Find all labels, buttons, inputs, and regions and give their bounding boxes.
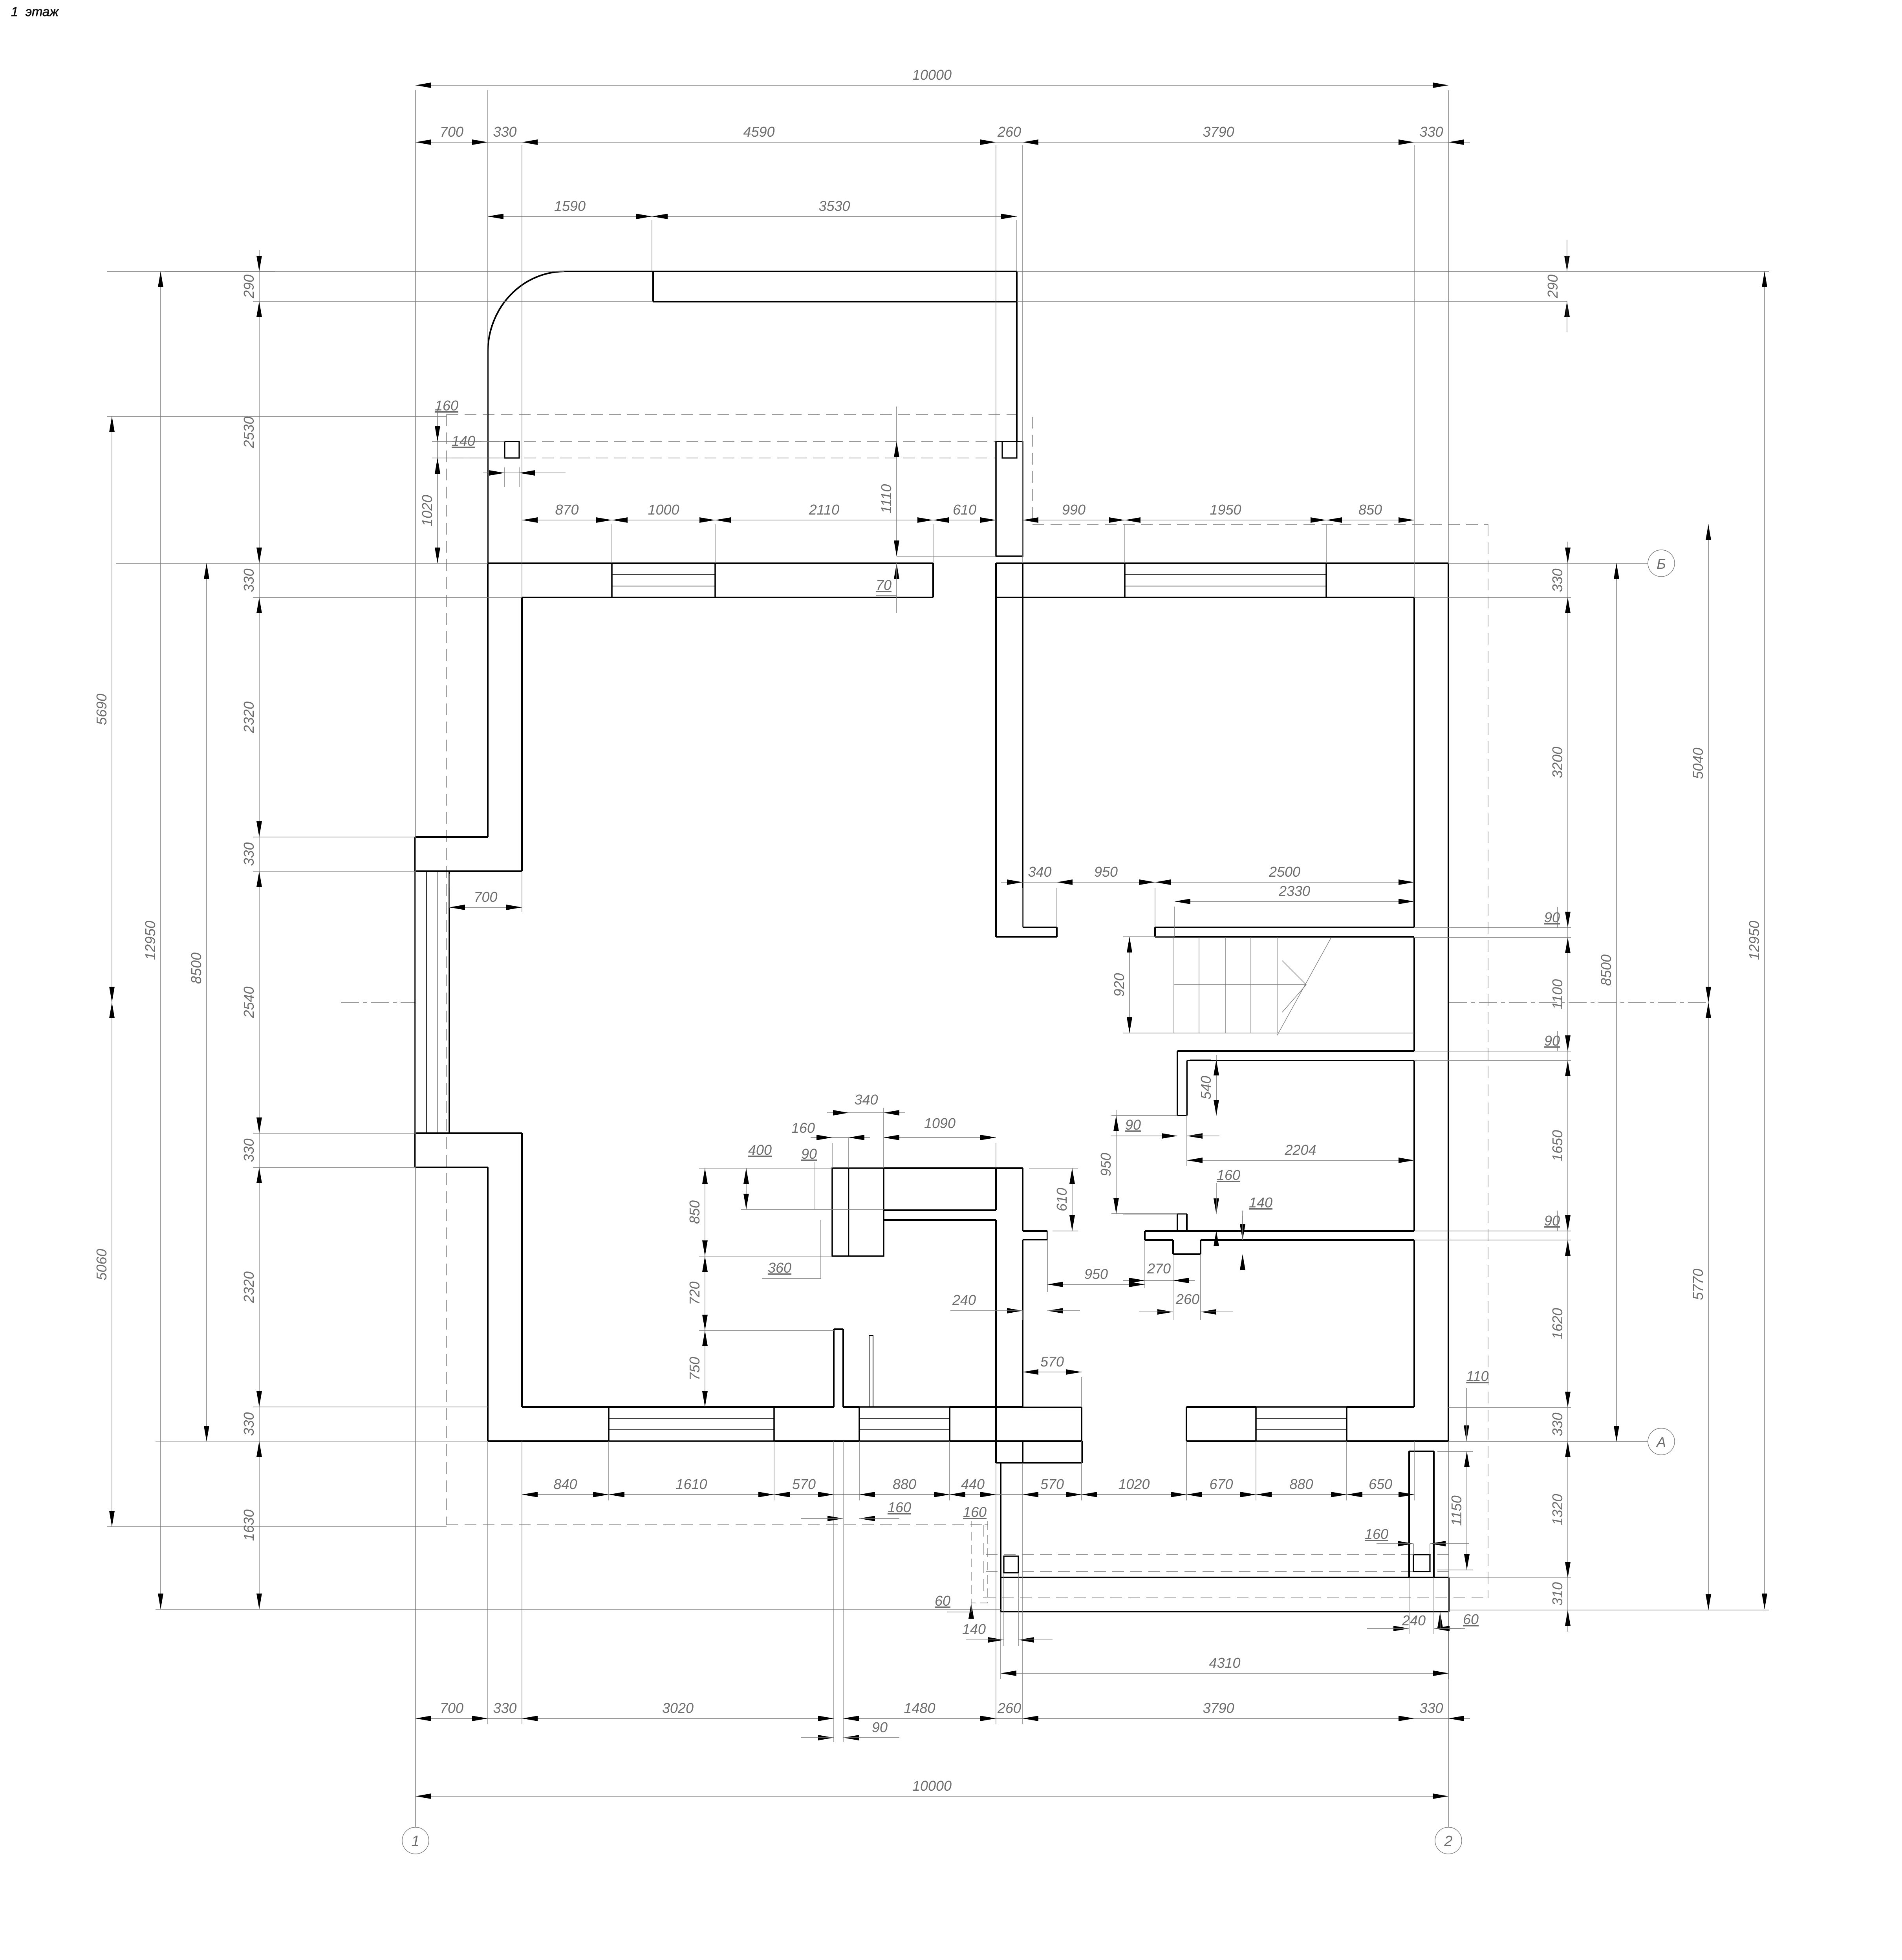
svg-text:4590: 4590: [743, 124, 774, 140]
dim 70: [894, 563, 899, 579]
canopy dashed outline top-left: [447, 414, 1018, 415]
svg-text:340: 340: [1028, 864, 1051, 880]
svg-text:1090: 1090: [924, 1115, 956, 1131]
svg-text:880: 880: [1289, 1476, 1313, 1492]
kitchen north wall band: [884, 1167, 1023, 1169]
svg-text:240: 240: [952, 1292, 976, 1308]
left col 290..1630: [259, 250, 260, 1609]
svg-text:1110: 1110: [878, 484, 894, 514]
axis circle B: [1648, 550, 1675, 577]
svg-text:700: 700: [440, 1700, 463, 1716]
dim 1110 vertical: [896, 441, 897, 556]
extension lines verticals top: [487, 90, 488, 563]
right col 5040/5770: [1708, 524, 1709, 1610]
canopy dashed west edge: [446, 414, 447, 1525]
dim row 10000 bottom: [416, 1796, 1448, 1797]
entrance door jamb: [932, 563, 934, 597]
window W2 in top wall: [1125, 562, 1326, 564]
hallway partition upper piece with door jamb: [1177, 1051, 1178, 1116]
bottom wall segment 2: [950, 1406, 1023, 1408]
porch curved corner wall (arc): [488, 271, 564, 352]
svg-text:2: 2: [1444, 1833, 1452, 1850]
svg-text:8500: 8500: [188, 953, 204, 984]
terrace east pier: [1408, 1451, 1410, 1577]
east exterior wall inner face: [1413, 597, 1415, 927]
chimney divider: [848, 1168, 849, 1256]
dim 950 opening: [1047, 1284, 1145, 1285]
central wall lower west face: [995, 1220, 997, 1407]
pilaster bump on central wall: [1023, 1230, 1047, 1232]
top exterior wall inner face: [522, 597, 933, 598]
central wall lower east face: [1022, 1168, 1023, 1231]
dim 140 post: [483, 473, 566, 473]
svg-text:650: 650: [1369, 1476, 1392, 1492]
terrace SE post: [1413, 1555, 1430, 1572]
dim 1020 vertical: [437, 458, 438, 563]
svg-text:140: 140: [452, 433, 475, 449]
svg-text:8500: 8500: [1598, 954, 1614, 986]
bay window (west glazing): [414, 871, 416, 1133]
svg-text:290: 290: [241, 275, 257, 299]
svg-text:70: 70: [876, 577, 892, 593]
svg-text:950: 950: [1084, 1266, 1108, 1282]
svg-text:12950: 12950: [1746, 921, 1762, 960]
svg-text:90: 90: [1125, 1117, 1141, 1133]
kitchen partition at bottom wall: [833, 1329, 835, 1407]
terrace west edge: [1000, 1463, 1001, 1612]
svg-text:160: 160: [791, 1120, 815, 1136]
svg-text:2204: 2204: [1284, 1142, 1316, 1158]
svg-text:А: А: [1656, 1434, 1666, 1450]
svg-text:3530: 3530: [818, 198, 850, 214]
door leaf: [869, 1335, 873, 1407]
extension lines horizontals right: [1017, 271, 1769, 272]
staircase: [1173, 937, 1174, 1033]
dim 700 bay: [449, 907, 522, 908]
top exterior wall outer face: [488, 562, 933, 564]
porch post right: [1002, 441, 1017, 458]
svg-text:1000: 1000: [648, 502, 679, 518]
svg-text:90: 90: [801, 1146, 817, 1162]
dim row 700/330/4590/260/3790/330: [416, 142, 1470, 143]
dim row 1590/3530: [488, 216, 1017, 217]
bottom wall piece east of patio pier: [1023, 1407, 1082, 1408]
svg-text:60: 60: [935, 1593, 950, 1609]
svg-text:570: 570: [1040, 1354, 1064, 1370]
svg-text:750: 750: [686, 1357, 703, 1380]
window W3 in bottom wall: [609, 1406, 774, 1408]
svg-text:1630: 1630: [241, 1509, 257, 1541]
svg-text:2530: 2530: [241, 416, 257, 448]
svg-text:10000: 10000: [912, 1778, 952, 1794]
svg-text:3790: 3790: [1203, 124, 1234, 140]
svg-text:60: 60: [1463, 1611, 1479, 1627]
svg-text:160: 160: [435, 397, 458, 414]
dashed column outline at porch door: [971, 1525, 988, 1603]
bay window top jog wall: [415, 836, 488, 838]
svg-text:570: 570: [1040, 1476, 1064, 1492]
dim 140 SW post: [988, 1637, 1004, 1643]
svg-text:160: 160: [888, 1499, 911, 1515]
svg-text:880: 880: [893, 1476, 916, 1492]
svg-text:140: 140: [1249, 1194, 1272, 1211]
kitchen south wall line: [884, 1219, 996, 1221]
svg-text:110: 110: [1466, 1368, 1488, 1384]
svg-text:12950: 12950: [142, 921, 158, 960]
svg-text:1320: 1320: [1549, 1494, 1565, 1525]
canopy dashed jog vertical: [1032, 417, 1033, 524]
porch north wall outer face: [564, 271, 1017, 272]
extension lines verticals bottom: [487, 1441, 488, 1724]
terrace SW post: [1004, 1556, 1018, 1573]
canopy dashed bottom-right: [984, 1597, 1488, 1598]
misc small extension lines: [897, 556, 996, 557]
svg-text:400: 400: [748, 1142, 772, 1158]
porch post left: [505, 441, 519, 458]
svg-text:950: 950: [1098, 1153, 1114, 1176]
right col 330..310: [1567, 542, 1568, 1632]
west exterior wall inner face (upper): [521, 597, 523, 871]
svg-text:670: 670: [1209, 1476, 1233, 1492]
svg-text:540: 540: [1198, 1076, 1214, 1099]
svg-text:140: 140: [962, 1621, 986, 1637]
svg-text:330: 330: [493, 1700, 516, 1716]
dim 400: [746, 1168, 747, 1209]
bay window bottom jog wall: [415, 1132, 522, 1134]
svg-text:1: 1: [411, 1833, 419, 1850]
axis 1 extension line: [415, 90, 416, 1827]
right col 8500: [1616, 563, 1617, 1442]
svg-text:330: 330: [493, 124, 516, 140]
canopy dashed bottom-left: [447, 1524, 984, 1525]
dim 290 right: [1564, 256, 1570, 271]
west exterior wall outer face (upper): [487, 352, 489, 837]
svg-text:870: 870: [555, 502, 578, 518]
svg-text:5040: 5040: [1690, 747, 1706, 779]
svg-text:160: 160: [963, 1504, 987, 1520]
svg-text:1150: 1150: [1448, 1495, 1464, 1526]
svg-text:3790: 3790: [1203, 1700, 1234, 1716]
central wall upper east face: [1022, 563, 1023, 927]
svg-text:1100: 1100: [1549, 979, 1565, 1009]
axis 2 extension line: [1448, 90, 1449, 563]
dim 2330: [1175, 901, 1414, 902]
section dash-dot line: [341, 1002, 416, 1003]
A-axis line: [1620, 1441, 1648, 1442]
svg-text:1610: 1610: [675, 1476, 707, 1492]
cross partition lower stub: [1172, 1240, 1174, 1254]
dim row 10000 top: [416, 85, 1448, 86]
central wall upper west face: [995, 563, 997, 937]
svg-text:840: 840: [553, 1476, 577, 1492]
svg-text:330: 330: [241, 842, 257, 866]
svg-text:10000: 10000: [912, 67, 952, 83]
hall partition stub top: [1023, 927, 1057, 928]
canopy wall piece above entrance: [996, 441, 1023, 556]
svg-text:700: 700: [474, 889, 497, 905]
svg-text:260: 260: [997, 1700, 1021, 1716]
svg-text:920: 920: [1111, 973, 1127, 996]
svg-text:240: 240: [1402, 1612, 1426, 1628]
svg-text:570: 570: [792, 1476, 816, 1492]
dim 950/540 door: [1116, 1116, 1117, 1214]
dim row 340/950/2500: [1001, 882, 1414, 883]
svg-text:260: 260: [997, 124, 1021, 140]
svg-text:260: 260: [1175, 1291, 1199, 1307]
terrace south wall band: [1001, 1577, 1449, 1578]
svg-text:330: 330: [1549, 568, 1565, 592]
window W1 in top wall: [612, 562, 715, 564]
svg-text:1020: 1020: [1118, 1476, 1150, 1492]
svg-text:3020: 3020: [662, 1700, 694, 1716]
svg-text:4310: 4310: [1209, 1655, 1240, 1671]
svg-text:1950: 1950: [1210, 502, 1241, 518]
west exterior wall outer face (lower): [487, 1167, 489, 1441]
svg-text:3200: 3200: [1549, 747, 1565, 778]
svg-text:2320: 2320: [241, 1271, 257, 1303]
svg-text:850: 850: [686, 1200, 703, 1224]
svg-text:610: 610: [1054, 1188, 1070, 1211]
dim 570 pier piece: [1023, 1372, 1082, 1372]
corridor partition below stairs: [1177, 1050, 1414, 1052]
svg-text:700: 700: [440, 124, 463, 140]
cross partition (WC) north face: [1145, 1230, 1414, 1232]
dim 160/340/1090 chimney: [884, 1137, 996, 1138]
right col 12950: [1764, 271, 1765, 1609]
svg-text:270: 270: [1147, 1260, 1171, 1277]
canopy dashed top-right: [1032, 524, 1488, 525]
svg-text:360: 360: [768, 1260, 791, 1276]
bottom row 700/330/3020/1480/260/3790/330: [416, 1718, 834, 1719]
left col 5690/5060: [112, 416, 112, 1527]
west exterior wall inner face (lower): [521, 1133, 523, 1407]
porch north wall inner face: [653, 301, 1017, 302]
dim 160 post: [435, 426, 440, 441]
chimney block: [832, 1168, 884, 1256]
hallway partition lower jamb: [1177, 1214, 1178, 1231]
svg-text:610: 610: [953, 502, 976, 518]
canopy dashed east edge: [1488, 524, 1488, 1598]
kitchen dims 850/720/750: [705, 1168, 705, 1407]
svg-text:1590: 1590: [554, 198, 586, 214]
canopy dashed step vertical: [983, 1525, 984, 1598]
svg-text:1620: 1620: [1549, 1308, 1565, 1339]
dim 610 east: [1072, 1168, 1073, 1231]
axis circle A: [1648, 1428, 1675, 1455]
svg-text:90: 90: [872, 1719, 888, 1735]
left col 8500: [206, 563, 207, 1442]
svg-text:950: 950: [1094, 864, 1118, 880]
dim 4310 terrace: [1001, 1673, 1449, 1674]
svg-text:2330: 2330: [1278, 883, 1310, 899]
svg-text:330: 330: [241, 568, 257, 592]
svg-text:850: 850: [1358, 502, 1382, 518]
svg-text:290: 290: [1545, 275, 1561, 299]
svg-text:720: 720: [686, 1281, 703, 1305]
window W5 in bottom wall: [1256, 1406, 1347, 1408]
svg-text:330: 330: [241, 1138, 257, 1162]
extension lines horizontals left: [107, 271, 564, 272]
dim row 870/1000/2110/610/990/1950/850: [522, 520, 996, 520]
dim 1150 pier: [1466, 1451, 1467, 1570]
svg-text:2320: 2320: [241, 702, 257, 733]
svg-text:330: 330: [1419, 1700, 1443, 1716]
dim 2204: [1187, 1160, 1414, 1161]
bottom exterior wall segment 1: [522, 1406, 834, 1408]
svg-text:330: 330: [241, 1412, 257, 1436]
porch east wall line: [1016, 271, 1018, 441]
svg-text:1 этаж: 1 этаж: [11, 4, 59, 19]
svg-text:5690: 5690: [93, 694, 110, 725]
svg-text:160: 160: [1217, 1167, 1240, 1183]
dim 920 stairs: [1129, 937, 1130, 1033]
svg-text:330: 330: [1419, 124, 1443, 140]
svg-text:2540: 2540: [241, 986, 257, 1018]
hall partition right of door: [1155, 927, 1414, 928]
window W4 in bottom wall: [859, 1406, 950, 1408]
central wall end cap at hall door: [996, 936, 1057, 938]
svg-text:1650: 1650: [1549, 1130, 1565, 1161]
canopy inner dashed pair top: [452, 441, 996, 442]
east exterior wall outer face: [1448, 563, 1449, 1442]
svg-text:340: 340: [854, 1092, 878, 1108]
svg-text:440: 440: [961, 1476, 985, 1492]
svg-text:330: 330: [1549, 1412, 1565, 1436]
svg-text:2500: 2500: [1269, 864, 1300, 880]
svg-text:990: 990: [1062, 502, 1086, 518]
dim 240 bump: [1007, 1308, 1023, 1313]
svg-text:310: 310: [1549, 1582, 1565, 1606]
svg-text:Б: Б: [1657, 556, 1666, 572]
bottom dim row 840..650: [522, 1494, 834, 1495]
porch north wall left jamb: [652, 271, 654, 302]
dim 260 stub: [1157, 1309, 1173, 1315]
svg-text:5770: 5770: [1690, 1269, 1706, 1300]
svg-text:160: 160: [1365, 1526, 1388, 1542]
dim 270: [1123, 1280, 1195, 1281]
dim 240 pier: [1393, 1626, 1409, 1631]
svg-text:5060: 5060: [93, 1249, 110, 1280]
svg-text:2110: 2110: [809, 502, 839, 518]
axis circle 1: [402, 1827, 429, 1854]
left col 12950: [160, 271, 161, 1609]
svg-text:1480: 1480: [904, 1700, 935, 1716]
entry pier below bottom wall: [995, 1407, 997, 1463]
svg-text:1020: 1020: [419, 495, 435, 526]
cross partition south face: [1145, 1239, 1173, 1241]
bottom wall segment 3 with corner: [1186, 1406, 1256, 1408]
canopy inner dashed pair bottom: [986, 1554, 1449, 1555]
axis circle 2: [1435, 1827, 1462, 1854]
